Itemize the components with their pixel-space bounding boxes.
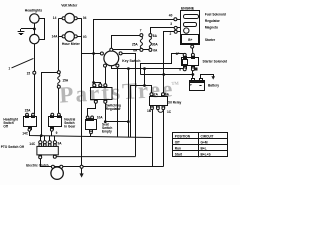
svg-text:Empty: Empty [102, 130, 112, 134]
svg-text:8A: 8A [165, 93, 170, 97]
engine box [181, 11, 200, 45]
wire relay bottomR down [163, 110, 165, 167]
wire key UR to bus [123, 54, 136, 157]
svg-text:CIRCUIT: CIRCUIT [201, 134, 214, 138]
svg-text:14C: 14C [29, 142, 36, 146]
svg-text:14C: 14C [22, 132, 29, 136]
wire key top rail [113, 49, 151, 51]
svg-text:Battery: Battery [208, 84, 219, 88]
svg-text:8: 8 [179, 67, 181, 71]
headlight lamp 1 [30, 14, 39, 23]
wire key LR down [117, 67, 119, 137]
ground arrow battery [211, 76, 215, 79]
svg-text:1: 1 [8, 67, 10, 71]
node dot 105 [104, 121, 106, 123]
headlight lamp 2 [30, 34, 39, 43]
svg-text:14A: 14A [52, 35, 59, 39]
label switching regulator [106, 103, 122, 111]
wire lamp2 down [34, 44, 35, 114]
svg-text:6A: 6A [153, 49, 158, 53]
watermark PartsTree [59, 76, 180, 107]
fuse 15A [57, 71, 60, 89]
svg-text:40: 40 [169, 13, 173, 17]
svg-text:1C: 1C [167, 110, 172, 114]
key switch S1 [100, 48, 122, 67]
wire pto right rail [56, 156, 135, 158]
svg-text:Starter Solenoid: Starter Solenoid [203, 60, 228, 64]
svg-text:25A: 25A [132, 42, 139, 46]
wire battery negative [201, 75, 214, 79]
wire relay T1 feed [131, 86, 152, 138]
pin 2 [174, 30, 181, 33]
wire key UL [82, 53, 101, 55]
svg-text:10A: 10A [97, 115, 104, 119]
starter solenoid K2 [182, 53, 199, 70]
seat switch S4 [86, 116, 97, 134]
wire pto left down [41, 159, 164, 167]
wire v144 to relay T1 [144, 69, 146, 86]
label headlight switch off [3, 118, 18, 129]
wire leader 1 [12, 58, 34, 68]
svg-text:7: 7 [140, 28, 142, 32]
svg-text:Volt Meter: Volt Meter [61, 3, 78, 7]
wire reg bottomR down [105, 103, 107, 121]
electric clutch L1 [51, 165, 63, 179]
svg-text:Hour Meter: Hour Meter [62, 42, 81, 46]
wire hour left stub [59, 36, 62, 38]
ground [18, 29, 25, 35]
fuse 30A [149, 34, 152, 52]
svg-text:30A: 30A [152, 42, 159, 46]
wire hl bottom to bus [30, 132, 152, 138]
node rail dot 2 [144, 68, 146, 70]
neutral switch S3 [49, 113, 62, 131]
wire fuse to neutral switch [58, 89, 60, 114]
wire engine 2 to relay T3 [164, 32, 175, 93]
wire fuse30A to engine 3 [151, 28, 175, 34]
wire v128 [128, 69, 130, 137]
wire 40 top [94, 20, 174, 84]
svg-text:15: 15 [27, 71, 31, 75]
node rail dot 1 [127, 68, 129, 70]
wire L ig to fuse7 [112, 36, 140, 49]
wire key LL down [105, 67, 107, 84]
svg-text:04: 04 [83, 16, 87, 20]
node lamp junction [34, 28, 36, 30]
svg-text:Run: Run [175, 147, 181, 151]
label neutral switch in gear [64, 118, 76, 129]
svg-text:Regulator: Regulator [106, 107, 122, 111]
table position circuit [173, 133, 228, 158]
wire hour right stub [77, 36, 81, 38]
PTO switch S5 [37, 144, 58, 159]
label seat switch empty [102, 123, 112, 134]
node dot 128b [127, 121, 129, 123]
svg-text:PTO Switch Off: PTO Switch Off [1, 145, 25, 149]
node ground junction [80, 165, 83, 168]
svg-text:IG: IG [83, 35, 87, 39]
svg-text:Electric Clutch: Electric Clutch [26, 163, 48, 167]
pin 3 [174, 26, 181, 29]
wire solenoid to battery [192, 71, 194, 78]
svg-text:9: 9 [56, 131, 58, 135]
svg-text:ENGINE: ENGINE [181, 6, 195, 10]
svg-text:G+M: G+M [201, 140, 208, 144]
wire h121 [105, 121, 128, 123]
svg-text:2: 2 [170, 32, 172, 36]
svg-text:1B: 1B [147, 109, 152, 113]
wire neutral bottom [51, 131, 53, 135]
svg-text:Key Switch: Key Switch [122, 59, 140, 63]
fuse 25A [140, 34, 143, 52]
wire left meter bus [58, 18, 60, 71]
svg-text:B+L: B+L [201, 147, 207, 151]
node bus dot 41 [40, 135, 42, 137]
relay K1 [150, 93, 168, 113]
node battery dot 1 [163, 74, 165, 76]
svg-text:14: 14 [53, 16, 57, 20]
svg-text:15A: 15A [25, 108, 32, 112]
pin 40 [174, 18, 181, 21]
node mid bus dot [93, 53, 95, 55]
svg-text:In Gear: In Gear [64, 125, 76, 129]
wire 1P chain [141, 54, 184, 75]
table text [175, 134, 214, 156]
volt meter U3 [65, 13, 75, 23]
wire lamp loop right [40, 19, 45, 40]
svg-text:Start: Start [175, 153, 183, 157]
svg-text:Starter: Starter [205, 38, 216, 42]
wire volt right stub [77, 18, 81, 20]
svg-text:Oil Relay: Oil Relay [168, 100, 182, 104]
wire reg bottomL to seat [88, 103, 96, 115]
svg-text:B+: B+ [188, 38, 192, 42]
wire T2 hook [94, 83, 101, 84]
svg-text:Magneto: Magneto [205, 26, 218, 30]
engine bottom terminal [191, 44, 194, 54]
svg-text:TM: TM [171, 81, 179, 86]
wire between lamps [34, 23, 36, 34]
svg-text:15A: 15A [62, 78, 69, 82]
svg-text:POSITION: POSITION [175, 134, 191, 138]
hour meter U4 [65, 32, 75, 42]
switching regulator U2 [91, 84, 113, 104]
wire battery plus chain [141, 75, 193, 78]
node 15 connector [33, 71, 36, 74]
wire key bottom rail [112, 66, 184, 69]
battery B1 [190, 79, 205, 91]
wire right meter bus [81, 18, 83, 165]
wire volt left stub [59, 18, 62, 20]
ground arrow bottom [80, 168, 84, 177]
wire seat bottom [90, 134, 92, 137]
PTO connector row [39, 136, 57, 144]
svg-text:3: 3 [170, 22, 172, 26]
wire relay bottomL down [152, 110, 154, 167]
svg-text:2A: 2A [154, 93, 159, 97]
node T2 hook dot [93, 82, 95, 84]
svg-text:B+L+S: B+L+S [201, 153, 211, 157]
node dot 144 [144, 85, 146, 87]
svg-text:9A: 9A [58, 142, 63, 146]
svg-text:Regulator: Regulator [205, 19, 221, 23]
svg-text:Fuel Solenoid: Fuel Solenoid [205, 13, 226, 17]
solenoid plus mark [195, 68, 198, 71]
node battery dot 2 [192, 74, 194, 76]
wire to ground [21, 28, 34, 30]
headlight switch S2 [24, 113, 37, 131]
svg-text:8A: 8A [153, 34, 158, 38]
svg-text:6A: 6A [133, 49, 138, 53]
wire L to bus [42, 73, 58, 136]
svg-text:Headlights: Headlights [25, 8, 42, 12]
